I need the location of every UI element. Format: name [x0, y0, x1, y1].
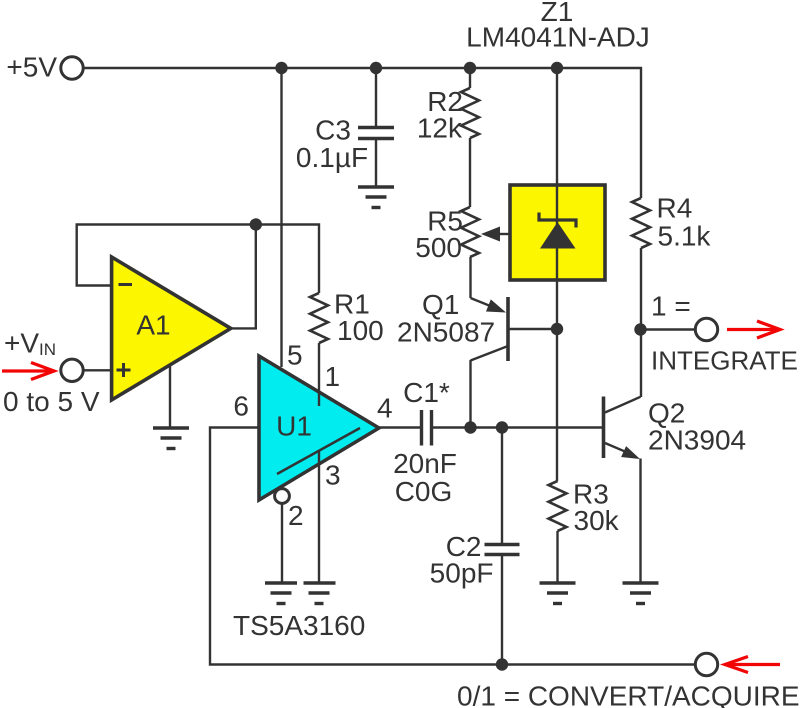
wire R2-R5	[469, 138, 471, 207]
svg-text:5.1k: 5.1k	[658, 221, 712, 252]
svg-text:5: 5	[287, 340, 303, 371]
svg-text:6: 6	[233, 391, 249, 422]
wire C3 bottom	[375, 140, 377, 186]
wire pin3 ground	[318, 451, 320, 582]
resistor R2	[461, 88, 479, 138]
node junction Q1 base to Z1	[551, 323, 563, 335]
ground U1 pin2	[265, 583, 297, 604]
wiper arrow R5	[481, 227, 500, 242]
svg-text:C3: C3	[315, 115, 351, 146]
wire to INTEGRATE terminal	[641, 328, 696, 330]
svg-text:LM4041N-ADJ: LM4041N-ADJ	[466, 22, 650, 53]
zener diode triangle	[540, 222, 576, 249]
ground A1	[153, 428, 189, 449]
wire C2 bottom	[501, 556, 503, 665]
wire R4 bottom to Q2 collector	[640, 248, 642, 397]
svg-text:+5V: +5V	[6, 52, 57, 83]
svg-text:20nF: 20nF	[393, 448, 457, 479]
svg-text:500: 500	[415, 232, 462, 263]
svg-text:100: 100	[337, 315, 384, 346]
ground Q2 emitter	[623, 583, 659, 604]
terminal CONVERT	[695, 653, 717, 675]
arrow VIN in	[2, 363, 54, 380]
svg-text:A1: A1	[136, 310, 170, 341]
svg-text:2N3904: 2N3904	[648, 425, 746, 456]
svg-text:C0G: C0G	[395, 476, 453, 507]
resistor R3	[549, 481, 567, 531]
wire U1 pin5 supply branch	[280, 68, 282, 367]
svg-text:C1*: C1*	[403, 377, 450, 408]
resistor R5	[461, 207, 479, 257]
switch pole line	[277, 428, 360, 474]
svg-text:Q1: Q1	[422, 289, 459, 320]
wire R3 bottom	[556, 531, 558, 582]
wire Z1 vertical	[556, 68, 558, 481]
svg-text:50pF: 50pF	[430, 558, 494, 589]
svg-text:12k: 12k	[417, 113, 463, 144]
wire A1 feedback	[77, 225, 319, 294]
wire VIN to A1	[83, 369, 112, 371]
terminal VIN	[61, 359, 83, 381]
capacitor C1	[422, 410, 432, 446]
wire A1 ground stub	[169, 366, 171, 427]
wire R1 to U1 pin1	[318, 343, 320, 406]
node junction C2 bottom rail	[496, 658, 508, 670]
node junction rail-R2	[464, 62, 476, 74]
plus input marker	[117, 363, 131, 377]
svg-text:U1: U1	[276, 411, 312, 442]
transistor Q2	[604, 397, 641, 583]
node junction rail-Z1	[551, 62, 563, 74]
arrow INTEGRATE out	[727, 321, 780, 338]
wire C1 to Q2 base	[433, 426, 602, 428]
node junction rail-C3	[370, 62, 382, 74]
node junction C2 top	[496, 421, 508, 433]
svg-text:2: 2	[288, 500, 304, 531]
node junction R4-INTEGRATE	[634, 323, 646, 335]
svg-text:30k: 30k	[574, 505, 620, 536]
node junction Q1 collector	[464, 421, 476, 433]
node junction rail-pin5	[275, 62, 287, 74]
ground R3	[540, 583, 576, 604]
terminal INTEGRATE	[695, 318, 717, 340]
zener cathode bar	[539, 213, 576, 228]
svg-text:0 to 5 V: 0 to 5 V	[3, 386, 100, 417]
svg-text:R4: R4	[657, 193, 693, 224]
wire top rail	[83, 68, 641, 198]
ground C3	[358, 187, 394, 208]
svg-text:3: 3	[325, 460, 341, 491]
resistor R1	[310, 293, 328, 343]
svg-text:4: 4	[377, 393, 393, 424]
ground U1 pin3	[304, 583, 336, 604]
svg-text:TS5A3160: TS5A3160	[233, 610, 365, 641]
pin2 bubble	[275, 489, 290, 504]
capacitor C3	[358, 128, 394, 139]
svg-text:2N5087: 2N5087	[397, 317, 495, 348]
wire A1 output	[231, 225, 256, 329]
wire pin2 ground	[281, 504, 283, 583]
svg-text:1 =: 1 =	[651, 291, 691, 322]
capacitor C2	[485, 545, 520, 555]
svg-text:0.1µF: 0.1µF	[296, 142, 368, 173]
svg-text:0/1 = CONVERT/ACQUIRE: 0/1 = CONVERT/ACQUIRE	[457, 681, 800, 708]
resistor R4	[632, 198, 650, 248]
wire C3 top	[375, 68, 377, 126]
svg-text:1: 1	[325, 361, 341, 392]
wire R5 wiper	[496, 233, 510, 235]
svg-text:INTEGRATE: INTEGRATE	[651, 346, 798, 376]
wire C2 top	[501, 428, 503, 544]
analog switch U1	[259, 356, 379, 500]
wire R2 top	[469, 68, 471, 88]
wire U1 output to C1	[379, 426, 420, 428]
transistor Q1	[471, 257, 558, 428]
arrow CONVERT in	[725, 657, 780, 673]
zener box Z1	[510, 185, 605, 280]
wire pin6 to bottom rail	[210, 428, 695, 665]
node junction feedback	[250, 218, 262, 230]
minus input marker	[119, 283, 133, 286]
terminal +5V	[61, 57, 83, 79]
op-amp A1	[112, 257, 231, 400]
